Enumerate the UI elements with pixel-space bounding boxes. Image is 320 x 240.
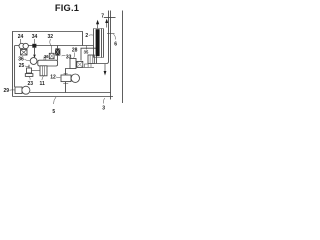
gauge circle 36	[30, 58, 37, 65]
wire risers tank top	[44, 57, 46, 61]
wire condenser to duct	[94, 11, 108, 64]
svg-text:23: 23	[28, 81, 34, 87]
enclosure box (main housing)	[13, 32, 83, 97]
bottom-left motor box	[15, 87, 22, 94]
duct inner line	[110, 11, 112, 100]
tank (horizontal reservoir)	[38, 60, 58, 66]
wire 28 to pump	[66, 69, 71, 76]
small pump under condenser	[83, 66, 94, 68]
svg-text:12: 12	[50, 75, 56, 81]
valve 34 (dark junction valve)	[32, 44, 36, 48]
label 6	[113, 34, 115, 40]
label 3	[103, 98, 104, 104]
bottom-left motor circle	[22, 86, 30, 94]
bottom outer line	[13, 96, 114, 98]
svg-text:3: 3	[102, 106, 105, 112]
component 28 (vertical rect)	[70, 59, 76, 69]
hatched box inside condenser	[88, 55, 94, 64]
label 23	[29, 77, 32, 80]
svg-text:6: 6	[114, 42, 117, 48]
pump 12	[61, 75, 71, 82]
svg-text:7: 7	[101, 14, 104, 20]
label 11	[42, 76, 44, 80]
wire gas outlet 7	[104, 17, 116, 19]
wire main horizontal line	[15, 45, 94, 47]
svg-text:11: 11	[40, 81, 46, 87]
svg-text:5: 5	[52, 109, 55, 115]
tick on duct	[107, 33, 115, 35]
valve 26 box	[49, 53, 54, 58]
condenser box	[81, 48, 97, 63]
pump 24 (gear pump circles)	[19, 43, 24, 48]
svg-text:25: 25	[19, 63, 25, 69]
svg-text:26: 26	[44, 54, 49, 59]
filter below tank (hatched)	[40, 66, 47, 76]
bottom inner line	[30, 92, 111, 94]
valve box below pump	[21, 50, 28, 56]
svg-text:2: 2	[85, 33, 88, 39]
svg-text:35: 35	[84, 50, 89, 55]
arrow up in duct	[106, 23, 108, 28]
label 33	[62, 54, 66, 57]
arrow down in duct	[104, 64, 106, 71]
label 5	[54, 97, 56, 104]
valve 33 (dark solenoid on main line)	[57, 46, 59, 49]
svg-text:FIG.1: FIG.1	[55, 3, 79, 13]
svg-text:36: 36	[18, 57, 24, 63]
arrow up above heat exchanger	[97, 24, 99, 28]
heat exchanger 2	[94, 29, 104, 58]
svg-text:29: 29	[4, 88, 10, 94]
wire pump down to bottom	[65, 82, 67, 93]
regulator 23/25 assembly	[28, 65, 30, 68]
wire left drop from pump to bottom-left box	[14, 46, 16, 88]
wire from valve 34 down with arrow into gauge	[34, 48, 36, 55]
outer wall line right	[122, 11, 124, 104]
valve right of 28	[77, 61, 83, 67]
